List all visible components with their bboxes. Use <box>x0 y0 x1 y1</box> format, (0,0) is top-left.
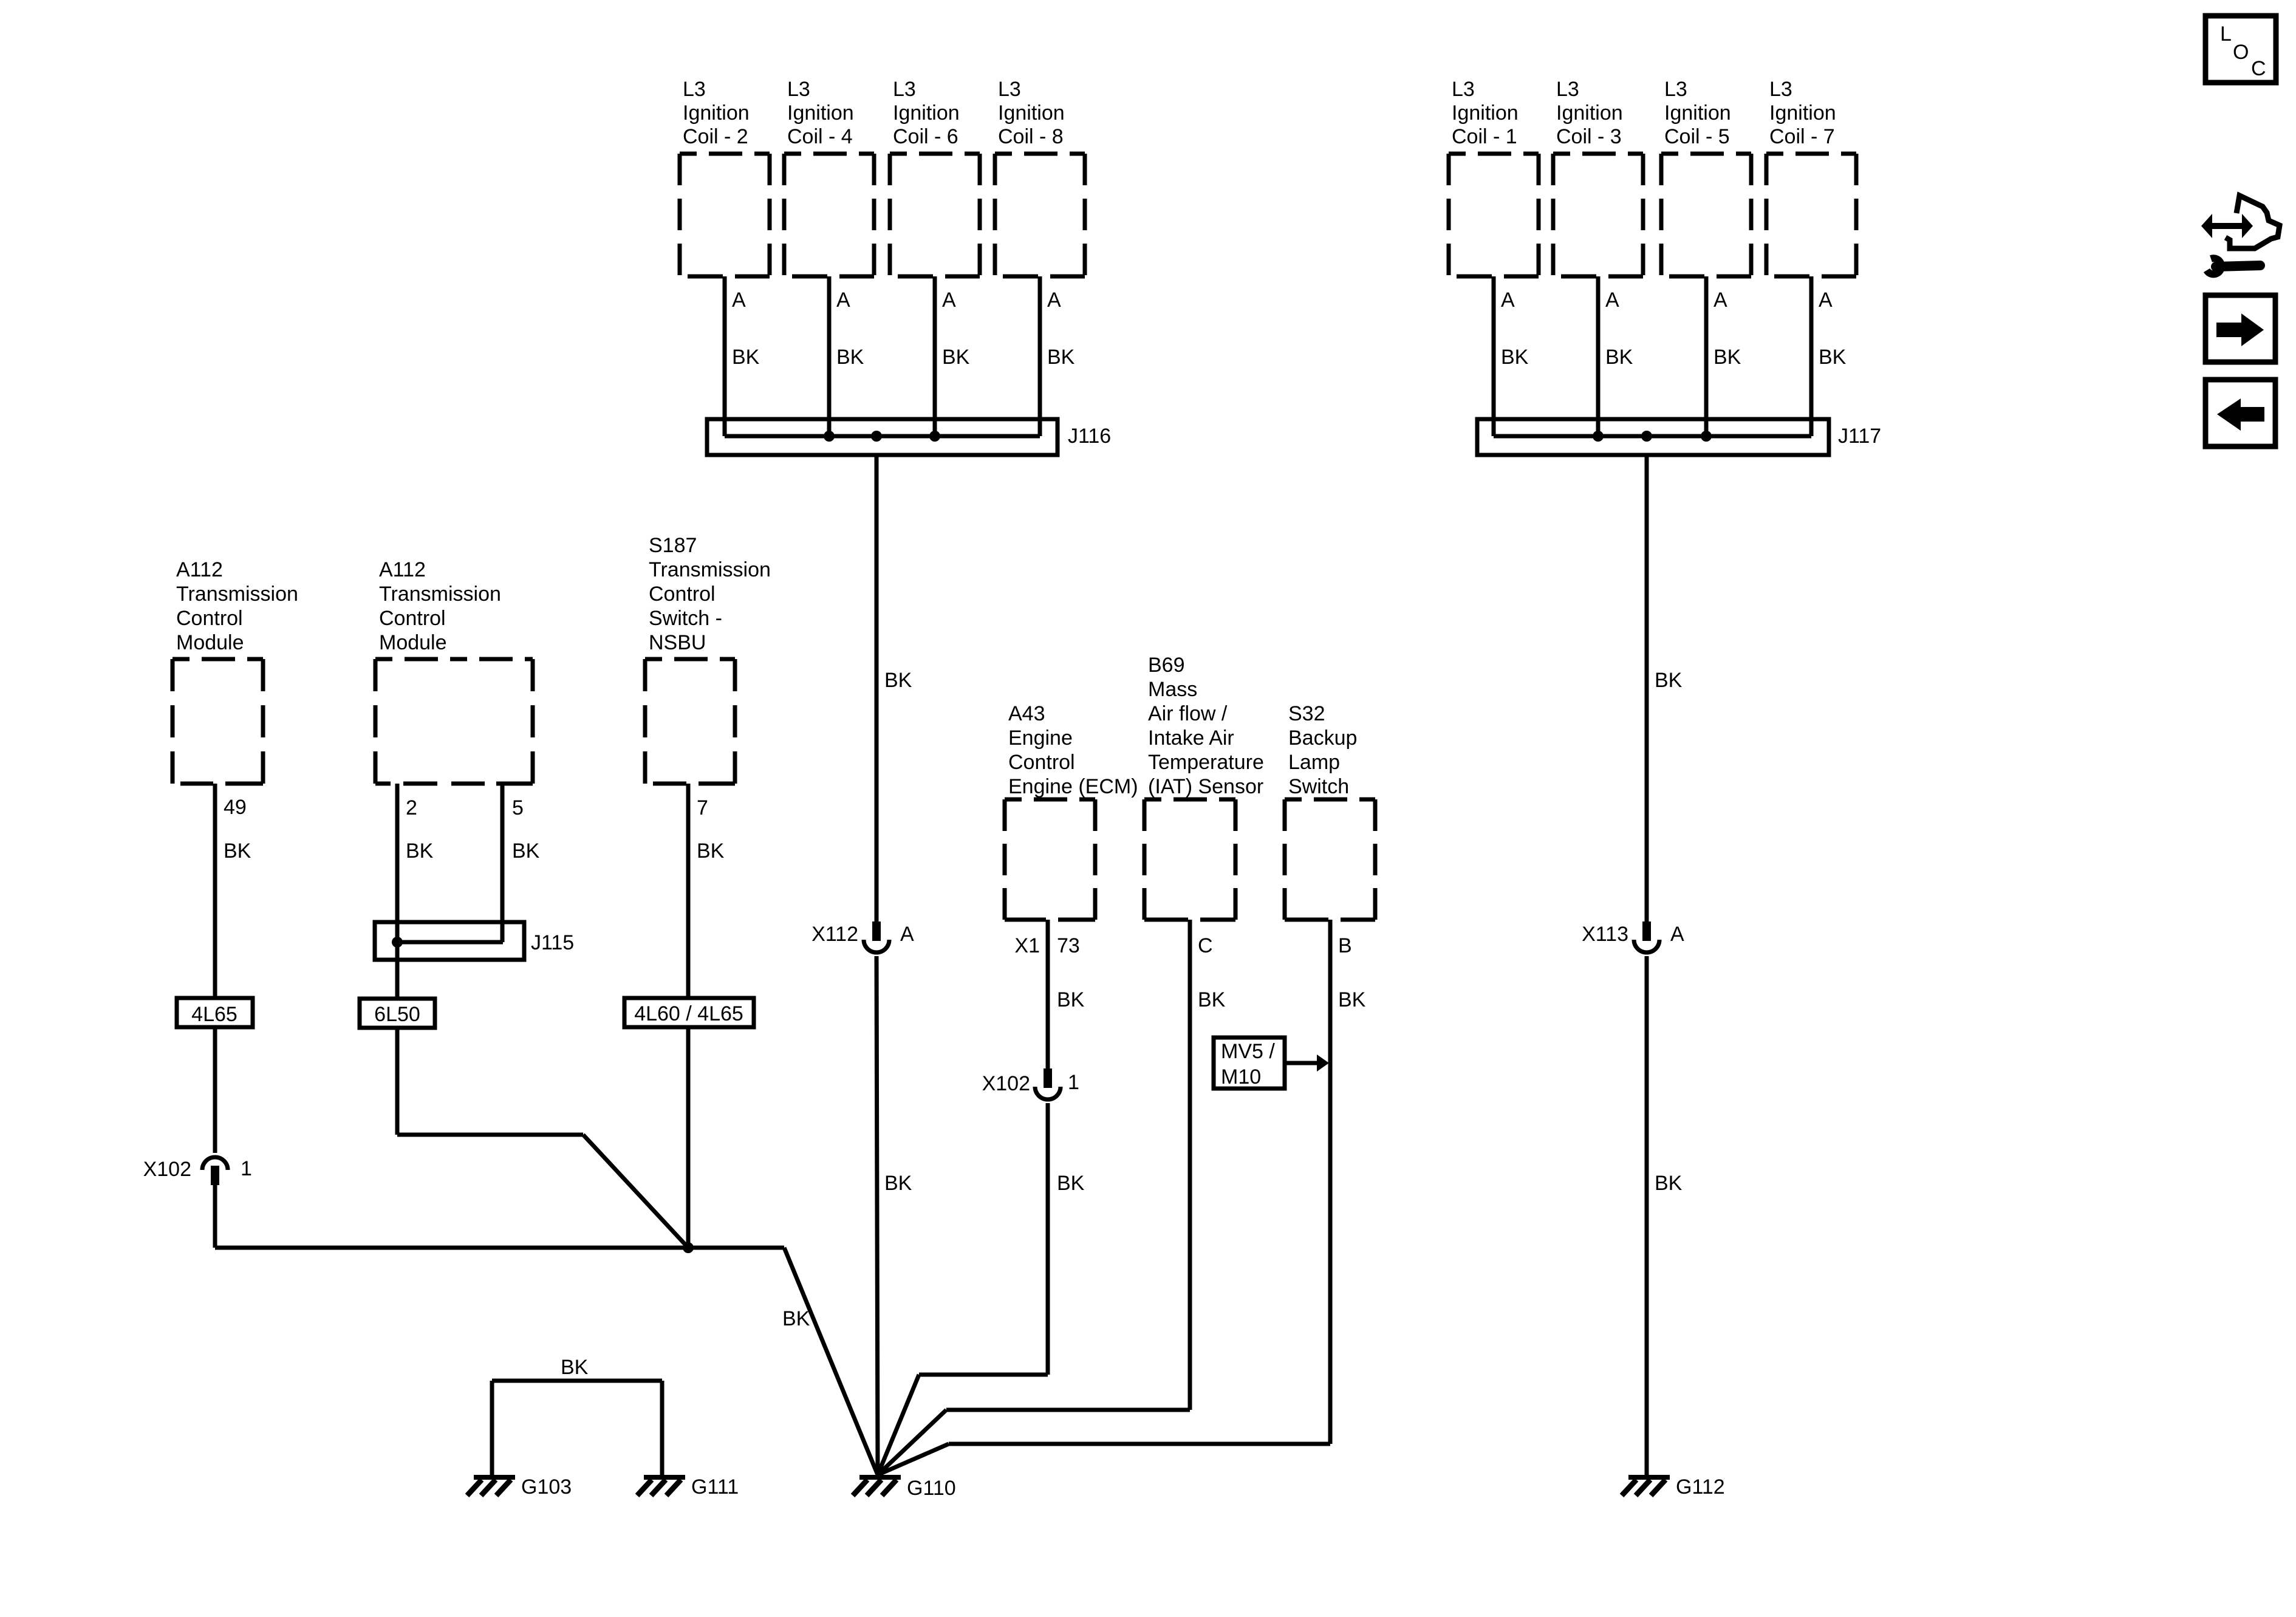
svg-text:BK: BK <box>561 1356 589 1379</box>
wire diagonal ECM to G110 <box>878 1375 919 1475</box>
svg-text:G112: G112 <box>1676 1475 1725 1499</box>
wire G103 riser <box>490 1381 494 1475</box>
connector X113 <box>1634 921 1659 952</box>
wire J117 to X113 <box>1645 455 1649 921</box>
svg-text:Module: Module <box>379 631 447 654</box>
wire X102 left down <box>213 1185 217 1248</box>
wire X102 middle down <box>1046 1103 1050 1375</box>
ignition coil L3-4 box <box>784 154 874 276</box>
svg-text:2: 2 <box>406 796 417 819</box>
svg-text:L3: L3 <box>1452 78 1475 101</box>
ground run horizontal <box>215 1246 784 1250</box>
wire diagonal to junction <box>583 1135 688 1248</box>
wire diagonal to G110 <box>784 1248 878 1475</box>
svg-text:BK: BK <box>697 839 725 863</box>
sensor B69 box <box>1144 799 1235 920</box>
svg-text:BK: BK <box>884 1172 912 1195</box>
splice pack J117 <box>1477 419 1829 455</box>
svg-text:BK: BK <box>782 1307 810 1330</box>
ignition coil L3-4 label <box>787 78 854 148</box>
svg-text:B69: B69 <box>1148 654 1185 677</box>
svg-text:Switch -: Switch - <box>649 607 722 630</box>
icon arrow left box <box>2205 380 2275 446</box>
svg-text:Module: Module <box>176 631 244 654</box>
svg-text:BK: BK <box>1057 1172 1085 1195</box>
ignition coil L3-7 box <box>1766 154 1856 276</box>
svg-text:BK: BK <box>1713 346 1741 369</box>
transmission tag 4L65 <box>177 998 253 1027</box>
ground G112 <box>1622 1477 1670 1496</box>
svg-text:Control: Control <box>176 607 243 630</box>
svg-text:A: A <box>732 289 746 312</box>
connector X102 (left) <box>202 1157 228 1185</box>
svg-text:Temperature: Temperature <box>1148 751 1264 774</box>
wire X113 to G112 <box>1645 956 1649 1475</box>
wire coil-6 pin A <box>933 276 937 436</box>
wire coil-1 pin A <box>1492 276 1496 436</box>
svg-text:C: C <box>1198 934 1213 957</box>
svg-text:A43: A43 <box>1008 702 1045 725</box>
svg-text:Coil - 4: Coil - 4 <box>787 125 853 148</box>
svg-text:J116: J116 <box>1068 425 1111 448</box>
svg-text:A112: A112 <box>379 558 426 581</box>
svg-text:BK: BK <box>1819 346 1847 369</box>
svg-text:Coil - 5: Coil - 5 <box>1664 125 1730 148</box>
wire S187 pin 7 <box>686 784 691 998</box>
svg-text:G110: G110 <box>907 1477 956 1500</box>
svg-text:L3: L3 <box>787 78 810 101</box>
svg-text:Switch: Switch <box>1288 775 1349 798</box>
wire coil-8 pin A <box>1038 276 1042 436</box>
wire G103-G111 bridge <box>492 1379 662 1383</box>
svg-text:BK: BK <box>836 346 864 369</box>
splice pack J115 <box>375 922 524 960</box>
svg-text:BK: BK <box>1057 988 1085 1011</box>
svg-text:A: A <box>1670 923 1684 946</box>
svg-text:G111: G111 <box>691 1475 739 1499</box>
ignition coil L3-1 label <box>1452 78 1519 148</box>
ignition coil L3-8 label <box>998 78 1065 148</box>
svg-text:A: A <box>1819 289 1833 312</box>
svg-text:Intake Air: Intake Air <box>1148 726 1234 750</box>
svg-text:J117: J117 <box>1838 425 1881 448</box>
svg-text:BK: BK <box>884 669 912 692</box>
svg-text:1: 1 <box>1068 1071 1079 1094</box>
switch S32 box <box>1285 799 1375 920</box>
svg-text:Engine (ECM): Engine (ECM) <box>1008 775 1138 798</box>
svg-text:S187: S187 <box>649 534 697 557</box>
wire coil-2 pin A <box>723 276 727 436</box>
svg-text:L: L <box>2220 22 2232 46</box>
splice pack J116 <box>707 419 1057 455</box>
svg-text:Control: Control <box>379 607 446 630</box>
svg-text:Ignition: Ignition <box>893 101 960 125</box>
ignition coil L3-5 label <box>1664 78 1731 148</box>
module A112 (1) label <box>176 558 298 654</box>
wire J116 to X112 <box>875 455 879 921</box>
svg-text:Coil - 1: Coil - 1 <box>1452 125 1517 148</box>
wire coil-5 pin A <box>1704 276 1709 436</box>
svg-text:BK: BK <box>1198 988 1226 1011</box>
svg-text:G103: G103 <box>521 1475 572 1499</box>
svg-text:A112: A112 <box>176 558 223 581</box>
svg-text:1: 1 <box>241 1157 252 1180</box>
wire horizontal from 6L50 <box>397 1133 583 1137</box>
svg-text:49: 49 <box>224 796 247 819</box>
wire horizontal B69 to G110 <box>946 1408 1190 1412</box>
svg-text:BK: BK <box>224 839 251 863</box>
svg-text:4L65: 4L65 <box>191 1003 237 1026</box>
switch S187 label <box>649 534 771 654</box>
icon LOC box <box>2205 16 2276 83</box>
svg-text:Ignition: Ignition <box>1556 101 1623 125</box>
wire A112 pin 5 <box>501 784 505 942</box>
module A112 (2) label <box>379 558 501 654</box>
svg-text:BK: BK <box>406 839 434 863</box>
svg-text:A: A <box>1501 289 1515 312</box>
svg-text:BK: BK <box>1338 988 1366 1011</box>
svg-text:4L60 / 4L65: 4L60 / 4L65 <box>634 1002 743 1025</box>
svg-text:BK: BK <box>1605 346 1633 369</box>
svg-text:NSBU: NSBU <box>649 631 706 654</box>
wire 4L60 tag to junction <box>686 1027 691 1248</box>
wire coil-3 pin A <box>1596 276 1601 436</box>
svg-text:6L50: 6L50 <box>374 1003 420 1026</box>
svg-text:J115: J115 <box>531 931 574 954</box>
ignition coil L3-6 box <box>890 154 980 276</box>
ground G110 <box>853 1477 901 1496</box>
svg-text:BK: BK <box>1047 346 1075 369</box>
svg-text:MV5 /: MV5 / <box>1221 1040 1275 1063</box>
wire diagonal S32 to G110 <box>878 1444 949 1475</box>
ignition coil L3-1 box <box>1449 154 1539 276</box>
svg-text:X112: X112 <box>811 923 858 946</box>
svg-text:BK: BK <box>1501 346 1529 369</box>
svg-text:L3: L3 <box>1664 78 1687 101</box>
svg-text:M10: M10 <box>1221 1065 1261 1089</box>
svg-text:B: B <box>1338 934 1352 957</box>
svg-text:Ignition: Ignition <box>1769 101 1836 125</box>
module A43 box <box>1005 799 1095 920</box>
svg-text:Coil - 2: Coil - 2 <box>683 125 748 148</box>
svg-text:Ignition: Ignition <box>998 101 1065 125</box>
svg-text:Air flow /: Air flow / <box>1148 702 1228 725</box>
svg-text:BK: BK <box>512 839 540 863</box>
svg-text:Engine: Engine <box>1008 726 1073 750</box>
switch S32 label <box>1288 702 1357 798</box>
tag MV5 / M10 <box>1214 1038 1285 1089</box>
wire coil-7 pin A <box>1809 276 1814 436</box>
svg-text:L3: L3 <box>998 78 1021 101</box>
ground G103 <box>467 1477 515 1496</box>
svg-text:BK: BK <box>942 346 970 369</box>
sensor B69 label <box>1148 654 1264 798</box>
svg-text:Coil - 6: Coil - 6 <box>893 125 958 148</box>
svg-text:Backup: Backup <box>1288 726 1357 750</box>
svg-text:7: 7 <box>697 796 708 819</box>
svg-text:A: A <box>1047 289 1061 312</box>
svg-text:Transmission: Transmission <box>379 583 501 606</box>
svg-text:L3: L3 <box>1556 78 1579 101</box>
svg-text:Transmission: Transmission <box>649 558 771 581</box>
svg-text:O: O <box>2233 41 2249 64</box>
svg-text:Control: Control <box>649 583 716 606</box>
wire coil-4 pin A <box>827 276 832 436</box>
svg-text:X102: X102 <box>143 1158 191 1181</box>
wire 4L65 to X102 <box>213 1027 217 1153</box>
wire diagonal B69 to G110 <box>878 1410 946 1475</box>
ignition coil L3-6 label <box>893 78 960 148</box>
wire A112 pin 2 <box>395 784 400 999</box>
svg-text:X113: X113 <box>1582 923 1628 946</box>
transmission tag 4L60 / 4L65 <box>624 998 754 1027</box>
svg-text:S32: S32 <box>1288 702 1325 725</box>
ignition coil L3-3 box <box>1553 154 1643 276</box>
svg-text:A: A <box>900 923 914 946</box>
ignition coil L3-2 label <box>683 78 750 148</box>
svg-text:L3: L3 <box>893 78 916 101</box>
wire B69 pin C <box>1188 920 1192 1410</box>
svg-text:BK: BK <box>1655 1172 1683 1195</box>
svg-text:X102: X102 <box>982 1072 1030 1095</box>
svg-text:Mass: Mass <box>1148 678 1197 701</box>
wire A43 pin 73 <box>1046 920 1050 1068</box>
wire horizontal ECM to G110 <box>919 1373 1048 1377</box>
transmission tag 6L50 <box>360 999 435 1028</box>
svg-text:Lamp: Lamp <box>1288 751 1340 774</box>
svg-text:Coil - 3: Coil - 3 <box>1556 125 1622 148</box>
svg-text:BK: BK <box>1655 669 1683 692</box>
wire X112 to G110 <box>876 956 878 1475</box>
svg-text:(IAT) Sensor: (IAT) Sensor <box>1148 775 1263 798</box>
ignition coil L3-8 box <box>995 154 1085 276</box>
svg-text:Ignition: Ignition <box>1664 101 1731 125</box>
switch S187 box <box>645 659 735 784</box>
arrow MV5 to wire <box>1285 1055 1329 1072</box>
svg-text:Ignition: Ignition <box>1452 101 1519 125</box>
connector X102 (middle) <box>1035 1068 1061 1099</box>
wire G111 riser <box>660 1381 665 1475</box>
svg-text:L3: L3 <box>1769 78 1792 101</box>
ignition coil L3-3 label <box>1556 78 1623 148</box>
ignition coil L3-5 box <box>1661 154 1751 276</box>
svg-text:A: A <box>942 289 956 312</box>
svg-text:Ignition: Ignition <box>787 101 854 125</box>
svg-text:Ignition: Ignition <box>683 101 750 125</box>
wire horizontal S32 to G110 <box>949 1442 1330 1446</box>
svg-text:A: A <box>1713 289 1727 312</box>
svg-text:73: 73 <box>1057 934 1080 957</box>
svg-text:A: A <box>836 289 850 312</box>
svg-text:5: 5 <box>512 796 524 819</box>
module A112 (2) box <box>375 659 533 784</box>
svg-text:X1: X1 <box>1014 934 1040 957</box>
svg-text:BK: BK <box>732 346 760 369</box>
ground G111 <box>637 1477 685 1496</box>
module A43 ECM label <box>1008 702 1138 798</box>
svg-text:Control: Control <box>1008 751 1075 774</box>
ignition coil L3-7 label <box>1769 78 1836 148</box>
ignition coil L3-2 box <box>680 154 770 276</box>
wire A112 pin 49 <box>213 784 217 998</box>
wire 6L50 down <box>395 1028 400 1135</box>
svg-text:Coil - 8: Coil - 8 <box>998 125 1064 148</box>
module A112 (1) box <box>173 659 263 784</box>
svg-text:C: C <box>2251 57 2266 80</box>
icon arrow right box <box>2205 295 2275 362</box>
junction <box>683 1242 694 1253</box>
svg-text:A: A <box>1605 289 1619 312</box>
svg-text:Coil - 7: Coil - 7 <box>1769 125 1835 148</box>
svg-text:Transmission: Transmission <box>176 583 298 606</box>
svg-text:L3: L3 <box>683 78 706 101</box>
connector X112 <box>864 921 889 952</box>
wire S32 pin B <box>1328 920 1333 1444</box>
icon component location (vehicle outline, arrow, wrench) <box>2201 196 2280 274</box>
